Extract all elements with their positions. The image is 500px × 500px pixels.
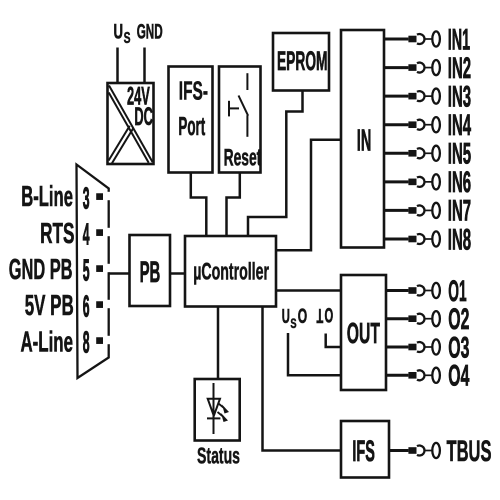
input IN6 contact dash [408,179,416,186]
box Reset [219,67,261,173]
svg-text:U: U [114,20,124,44]
output TBUS plug arc [417,446,425,456]
output O2 socket ring [432,311,440,326]
svg-text:GND: GND [137,19,163,43]
output O1 wire [386,289,408,292]
box OUT output stage [341,275,386,390]
input IN2 plug arc [417,63,425,73]
converter stripe bottom-left to crossing [109,126,130,161]
wire IFS-Port to uController [191,173,207,237]
output O4 plug arc [417,370,425,380]
output O2 link [424,318,432,320]
output O3 contact dash [408,344,416,351]
input IN7 plug arc [417,205,425,215]
output O1 socket ring [432,283,440,298]
svg-text:IFS: IFS [352,435,375,468]
input IN6 wire [384,180,408,183]
svg-text:GND PB: GND PB [9,254,73,286]
pin 5 contact dash [96,265,103,272]
svg-text:O: O [298,304,307,328]
output O3 plug arc [417,342,425,352]
input IN2 wire [384,66,408,69]
pin 8 contact dash [96,337,103,344]
output O3 socket ring [432,339,440,354]
output TBUS socket ring [432,443,440,458]
wire USO to OUT [288,333,341,375]
wire Reset to uController [227,173,240,237]
input IN8 plug arc [417,234,425,244]
wire US to 24V DC converter [116,48,119,84]
output O2 contact dash [408,315,416,322]
svg-text:OUT: OUT [347,318,380,350]
box Status [195,379,240,441]
svg-text:EPROM: EPROM [277,46,328,76]
output O4 wire [386,374,408,377]
connector X1 D-SUB outline [77,165,109,379]
input IN2 socket ring [432,60,440,75]
wire uController to Status LED [217,307,220,380]
svg-text:Status: Status [197,443,240,469]
svg-text:S: S [290,316,296,332]
input IN4 contact dash [408,121,416,128]
input IN3 contact dash [408,93,416,100]
input IN1 link [424,38,432,40]
input IN6 socket ring [432,174,440,189]
input IN8 wire [384,238,408,241]
input IN6 plug arc [417,177,425,187]
svg-text:IN8: IN8 [448,223,471,256]
LED D1 anode triangle [208,399,220,416]
box IFS interface [341,421,389,478]
pushbutton S1 top lead [246,73,248,90]
converter stripe top-left to bottom-right [109,86,153,163]
svg-text:S: S [124,30,131,47]
output TBUS link [424,450,432,452]
input IN3 socket ring [432,89,440,104]
input IN1 contact dash [408,36,416,43]
input IN7 wire [384,209,408,212]
input IN4 socket ring [432,117,440,132]
input IN5 link [424,152,432,154]
input IN3 wire [384,95,408,98]
input IN8 socket ring [432,231,440,246]
svg-text:PB: PB [140,256,161,289]
svg-text:Reset: Reset [224,145,262,172]
LED D1 cathode bar [207,417,220,419]
svg-text:DC: DC [134,104,153,131]
input IN5 wire [384,152,408,155]
box PB bus driver [130,235,171,306]
input IN7 link [424,209,432,211]
svg-text:O: O [325,304,334,328]
svg-text:5V PB: 5V PB [25,290,74,322]
input IN5 contact dash [408,150,416,157]
input IN7 socket ring [432,203,440,218]
svg-text:5: 5 [83,252,90,287]
svg-text:IFS-: IFS- [179,76,208,106]
svg-text:IN: IN [357,123,372,158]
wire uController to OUT [276,289,341,292]
svg-text:A-Line: A-Line [21,327,74,359]
output O1 link [424,290,432,292]
input IN4 plug arc [417,120,425,130]
wire connector pin5 to PB [109,272,130,275]
wire EPROM to uController [248,91,303,237]
input IN5 plug arc [417,148,425,158]
input IN4 link [424,124,432,126]
pushbutton S1 actuator [228,101,230,117]
svg-text:µController: µController [193,258,269,285]
input IN7 contact dash [408,207,416,214]
wire uController to IFS [263,307,342,451]
output TBUS wire [389,449,408,452]
input IN4 wire [384,123,408,126]
svg-text:3: 3 [83,180,90,215]
svg-text:O4: O4 [448,360,469,393]
input IN8 contact dash [408,236,416,243]
svg-text:B-Line: B-Line [21,181,73,213]
output TBUS contact dash [408,447,416,454]
input IN3 plug arc [417,91,425,101]
output O3 wire [386,346,408,349]
input IN2 contact dash [408,64,416,71]
input IN1 plug arc [417,34,425,44]
input IN8 link [424,238,432,240]
output O4 contact dash [408,372,416,379]
svg-text:U: U [282,305,290,328]
wire OT to OUT [326,334,341,348]
output O2 plug arc [417,314,425,324]
pushbutton S1 blade [239,96,249,116]
box uController U1 [185,236,276,307]
box IN input stage [341,30,384,248]
LED D1 light arrow 2 [218,412,224,417]
pushbutton S1 bottom lead [246,115,248,137]
svg-text:4: 4 [83,216,90,251]
power supply 24V DC converter box [108,83,154,164]
output O1 contact dash [408,287,416,294]
wire uController to IN [276,140,341,251]
svg-text:Port: Port [178,113,205,141]
pin 3 contact dash [96,193,103,200]
svg-text:T: T [317,304,324,326]
input IN3 link [424,95,432,97]
svg-text:8: 8 [83,324,90,359]
LED D1 vertical lead [213,383,215,434]
svg-text:6: 6 [83,288,90,323]
output O2 wire [386,317,408,320]
input IN5 socket ring [432,146,440,161]
output O4 socket ring [432,368,440,383]
pin 4 contact dash [96,229,103,236]
svg-text:TBUS: TBUS [447,435,492,468]
svg-text:RTS: RTS [40,218,74,250]
input IN1 wire [384,38,408,41]
output O1 plug arc [417,286,425,296]
output O4 link [424,374,432,376]
LED D1 light arrow 1 [219,404,225,409]
box EPROM [273,33,329,91]
input IN1 socket ring [432,31,440,46]
wire PB to uController [170,272,185,275]
pin 6 contact dash [96,301,103,308]
input IN2 link [424,67,432,69]
wire GND to 24V DC converter [143,48,146,84]
box IFS-Port [169,67,213,173]
input IN6 link [424,181,432,183]
output O3 link [424,346,432,348]
